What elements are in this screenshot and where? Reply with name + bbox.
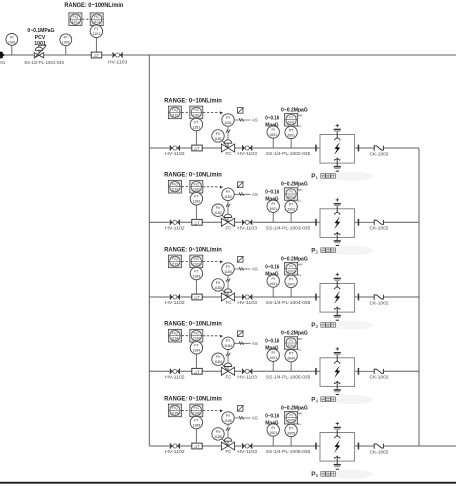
svg-text:PI: PI xyxy=(272,426,275,430)
svg-text:0~0.2MpaG: 0~0.2MpaG xyxy=(281,107,308,113)
svg-text:PI: PI xyxy=(64,36,67,40)
svg-text:SS-1/4-PL-1004-035: SS-1/4-PL-1004-035 xyxy=(266,300,311,306)
svg-text:HV-1102: HV-1102 xyxy=(165,449,185,455)
instrument FV 1184 unit 4 xyxy=(212,353,224,365)
wire FT to flow element unit 5 xyxy=(195,429,197,444)
label minus unit 5 xyxy=(336,468,339,470)
wire breaker to bus unit 5 xyxy=(383,445,456,447)
svg-text:FIQ: FIQ xyxy=(172,183,178,187)
svg-text:1183: 1183 xyxy=(171,262,178,266)
instrument FT 1181 unit 1 xyxy=(190,118,202,130)
instrument FV 1181 unit 1 xyxy=(212,130,224,142)
svg-text:CK-1002: CK-1002 xyxy=(370,226,389,232)
solenoid box unit 2 xyxy=(237,181,243,187)
arrowhead signal to FY unit 3 xyxy=(220,260,223,263)
svg-text:△T: △T xyxy=(194,295,200,300)
instrument PT 2003 unit 3 xyxy=(290,288,292,297)
wire process pipe unit 1 xyxy=(149,147,319,149)
instrument FY 1183 unit 3 xyxy=(222,263,234,275)
wire air supply with pneumatic slashes unit 5 xyxy=(234,417,250,419)
svg-text:2003: 2003 xyxy=(287,270,295,274)
svg-text:2002: 2002 xyxy=(287,208,295,212)
terminal tick right unit 5 xyxy=(358,443,360,450)
svg-text:2004: 2004 xyxy=(287,357,295,361)
svg-text:PI: PI xyxy=(290,414,293,418)
node off-page inlet connector xyxy=(0,52,5,59)
stack chamber box unit 1 xyxy=(320,135,355,164)
svg-text:1183: 1183 xyxy=(193,274,201,278)
instrument FIC 1184 unit 4 xyxy=(190,329,203,342)
wire FY to valve actuator pneumatic unit 5 xyxy=(227,424,229,437)
instrument PI 1001 unit 3 xyxy=(272,287,274,297)
lightning bolt unit 5 xyxy=(334,440,340,453)
breaker CK-1002 unit 4 xyxy=(374,369,383,374)
svg-text:1185: 1185 xyxy=(193,411,200,415)
svg-text:1002: 1002 xyxy=(62,41,70,45)
label P5 discharge chamber unit 5 xyxy=(311,471,318,478)
instrument PI 2001 alarm square unit 1 xyxy=(285,113,298,126)
instrument PT 2005 unit 5 xyxy=(290,437,292,446)
instrument FIC 1101 xyxy=(90,13,103,26)
instrument FV 1185 unit 5 xyxy=(212,428,224,440)
svg-text:CK-1002: CK-1002 xyxy=(370,375,389,381)
electrode bottom unit 1 xyxy=(334,158,340,167)
label CJK discharge chamber glyphs unit 3 xyxy=(321,323,336,328)
svg-text:PI: PI xyxy=(272,202,275,206)
solenoid box unit 1 xyxy=(237,107,243,113)
svg-text:FY: FY xyxy=(226,339,231,343)
svg-text:1001: 1001 xyxy=(269,133,277,137)
wire process pipe unit 2 xyxy=(149,221,319,223)
svg-text:0~0.2MpaG: 0~0.2MpaG xyxy=(281,331,308,337)
svg-text:FIC: FIC xyxy=(194,332,200,336)
terminal tick left unit 3 xyxy=(315,294,317,301)
svg-text:0~0.16: 0~0.16 xyxy=(265,339,279,345)
svg-text:HH: HH xyxy=(298,188,302,192)
svg-text:LL: LL xyxy=(298,273,302,277)
svg-text:FIQ: FIQ xyxy=(172,332,178,336)
svg-text:1184: 1184 xyxy=(224,344,232,348)
flow element FE (triangle-T) top xyxy=(91,52,101,58)
wire FT to flow element unit 1 xyxy=(195,131,197,146)
instrument FY 1181 unit 1 xyxy=(222,114,234,126)
wire air supply with pneumatic slashes unit 1 xyxy=(234,119,250,121)
wire FY to valve actuator pneumatic unit 3 xyxy=(227,275,229,288)
instrument PI 1001 unit 4 xyxy=(272,361,274,371)
terminal tick left unit 1 xyxy=(315,145,317,152)
instrument PI 1002 xyxy=(65,46,67,55)
svg-text:△T: △T xyxy=(194,146,200,151)
svg-text:0~0.2MpaG: 0~0.2MpaG xyxy=(281,182,308,188)
instrument FY 1185 unit 5 xyxy=(222,412,234,424)
label plus unit 2 xyxy=(336,198,339,201)
svg-text:FIQ: FIQ xyxy=(172,406,178,410)
svg-text:PI: PI xyxy=(272,128,275,132)
flow element FE unit 4 xyxy=(192,368,202,374)
stack chamber box unit 3 xyxy=(320,284,355,313)
stack chamber box unit 4 xyxy=(320,358,355,387)
svg-text:1182: 1182 xyxy=(224,195,232,199)
battery plates bottom unit 1 xyxy=(334,166,341,168)
label plus unit 3 xyxy=(336,273,339,276)
svg-text:HV-1102: HV-1102 xyxy=(165,226,185,232)
label CJK discharge chamber glyphs unit 5 xyxy=(321,472,336,477)
watermark blob unit 3 xyxy=(331,321,373,330)
wire breaker to bus unit 2 xyxy=(383,221,419,223)
svg-text:FIQ: FIQ xyxy=(172,257,178,261)
wire FT to flow element unit 4 xyxy=(195,354,197,369)
svg-text:1184: 1184 xyxy=(193,337,200,341)
instrument FY 1182 unit 2 xyxy=(222,188,234,200)
svg-text:AS: AS xyxy=(252,341,258,346)
instrument FT 1184 unit 4 xyxy=(190,342,202,354)
svg-text:1182: 1182 xyxy=(214,211,222,215)
svg-text:FIC: FIC xyxy=(94,15,100,19)
electrode top unit 1 xyxy=(334,132,340,141)
battery plates bottom unit 5 xyxy=(334,464,341,466)
svg-text:MpaG: MpaG xyxy=(265,420,278,426)
svg-text:1185: 1185 xyxy=(214,435,222,439)
wire FV to valve stem unit 1 xyxy=(221,139,228,148)
instrument PT 2001 unit 1 xyxy=(290,139,292,148)
svg-text:HV-1102: HV-1102 xyxy=(165,151,185,157)
valve HV-1103 unit 5 xyxy=(242,443,253,449)
label plus unit 5 xyxy=(336,422,339,425)
valve HV-1102 unit 2 xyxy=(169,219,180,225)
svg-text:MpaG: MpaG xyxy=(265,197,278,203)
flow element FE unit 3 xyxy=(192,294,202,300)
svg-text:FC: FC xyxy=(226,300,233,305)
svg-text:HV-1103: HV-1103 xyxy=(237,449,257,455)
electrode top unit 2 xyxy=(334,206,340,215)
terminal tick right unit 1 xyxy=(358,145,360,152)
wire signal FIQ-FIC-FY dashed unit 2 xyxy=(182,186,220,188)
instrument FT 1183 unit 3 xyxy=(190,267,202,279)
svg-text:SS-1/4-PL-1002-035: SS-1/4-PL-1002-035 xyxy=(266,151,311,157)
wire breaker to bus unit 3 xyxy=(383,296,419,298)
watermark blob unit 2 xyxy=(331,246,373,255)
wire air supply with pneumatic slashes unit 4 xyxy=(234,342,250,344)
svg-text:2005: 2005 xyxy=(287,419,295,423)
svg-text:2002: 2002 xyxy=(287,195,295,199)
svg-text:0~0.16: 0~0.16 xyxy=(265,264,279,270)
instrument FIQ 1183 unit 3 xyxy=(168,255,181,268)
instrument FIQ 1181 unit 1 xyxy=(168,106,181,119)
svg-text:SS-1/4-PL-1003-035: SS-1/4-PL-1003-035 xyxy=(266,226,311,232)
label minus unit 3 xyxy=(336,319,339,321)
breaker CK-1002 unit 5 xyxy=(374,443,383,448)
svg-text:FIC: FIC xyxy=(194,257,200,261)
valve HV-1103 unit 4 xyxy=(242,368,253,374)
instrument PT 2002 unit 2 xyxy=(290,213,292,222)
instrument FIQ 1182 unit 2 xyxy=(168,180,181,193)
electrode bottom unit 5 xyxy=(334,456,340,465)
battery plates bottom unit 3 xyxy=(334,315,341,317)
battery plates top unit 2 xyxy=(334,203,341,205)
svg-text:1001: 1001 xyxy=(8,40,16,44)
svg-text:1101: 1101 xyxy=(93,20,100,24)
wire branch header vertical xyxy=(148,55,150,446)
svg-text:FIC: FIC xyxy=(194,108,200,112)
svg-text:PI: PI xyxy=(272,277,275,281)
instrument PT 2004 unit 4 xyxy=(290,362,292,371)
svg-text:FV: FV xyxy=(216,430,221,434)
instrument PI 1001 unit 1 xyxy=(272,138,274,148)
svg-text:AS: AS xyxy=(252,192,258,197)
svg-text:1001: 1001 xyxy=(269,282,277,286)
instrument FV 1182 unit 2 xyxy=(212,204,224,216)
wire FT to flow element unit 3 xyxy=(195,280,197,295)
svg-text:PI: PI xyxy=(10,35,13,39)
svg-text:MpaG: MpaG xyxy=(265,271,278,277)
lightning bolt unit 2 xyxy=(334,216,340,229)
label plus unit 4 xyxy=(336,347,339,350)
svg-text:2003: 2003 xyxy=(287,282,295,286)
breaker CK-1002 unit 2 xyxy=(374,220,383,225)
label minus unit 4 xyxy=(336,394,339,396)
terminal tick left unit 4 xyxy=(315,368,317,375)
svg-text:1001: 1001 xyxy=(34,41,46,47)
svg-text:HV-1102: HV-1102 xyxy=(165,375,185,381)
svg-text:FV: FV xyxy=(216,132,221,136)
valve HV-1103 unit 3 xyxy=(242,294,253,300)
wire stack to breaker unit 4 xyxy=(355,370,374,372)
svg-text:FC: FC xyxy=(226,226,233,231)
electrode bottom unit 2 xyxy=(334,232,340,241)
svg-text:FY: FY xyxy=(226,190,231,194)
arrowhead signal to FY unit 4 xyxy=(220,335,223,338)
svg-text:FIC: FIC xyxy=(194,406,200,410)
svg-text:FV: FV xyxy=(216,281,221,285)
instrument FIC 1181 unit 1 xyxy=(190,106,203,119)
stack chamber box unit 5 xyxy=(320,433,355,462)
svg-text:△T: △T xyxy=(194,369,200,374)
svg-text:PI: PI xyxy=(290,190,293,194)
wire FY to valve actuator pneumatic unit 1 xyxy=(227,126,229,139)
wire FV to valve stem unit 4 xyxy=(221,362,228,371)
instrument FIC 1183 unit 3 xyxy=(190,255,203,268)
svg-text:1181: 1181 xyxy=(224,121,232,125)
wire FY to valve actuator pneumatic unit 2 xyxy=(227,201,229,214)
svg-text:0~0.16: 0~0.16 xyxy=(265,413,279,419)
electrode bottom unit 3 xyxy=(334,307,340,316)
wire signal FIQ-FIC dashed xyxy=(82,18,90,20)
control valve with diaphragm actuator unit 1 xyxy=(221,140,235,152)
terminal tick left unit 5 xyxy=(315,443,317,450)
label CJK discharge chamber glyphs unit 4 xyxy=(321,397,336,402)
instrument FT 1101 xyxy=(90,25,102,37)
lightning bolt unit 4 xyxy=(334,365,340,378)
svg-text:1184: 1184 xyxy=(214,360,222,364)
svg-text:1183: 1183 xyxy=(214,286,222,290)
arrowhead signal to FY unit 5 xyxy=(220,409,223,412)
svg-text:1101: 1101 xyxy=(93,32,101,36)
wire FV to valve stem unit 5 xyxy=(221,437,228,446)
label P3 discharge chamber unit 3 xyxy=(311,322,318,329)
wire stack to breaker unit 2 xyxy=(355,221,374,223)
svg-text:SS-1/4-PL-1005-035: SS-1/4-PL-1005-035 xyxy=(266,375,311,381)
instrument FIC 1185 unit 5 xyxy=(190,404,203,417)
svg-text:RANGE: 0~10NL/min: RANGE: 0~10NL/min xyxy=(164,97,222,104)
svg-text:1001: 1001 xyxy=(269,207,277,211)
watermark blob unit 4 xyxy=(331,395,373,404)
svg-text:1182: 1182 xyxy=(193,200,201,204)
instrument FIQ 1101 xyxy=(69,13,82,26)
battery plates top unit 1 xyxy=(334,129,341,131)
wire FV to valve stem unit 3 xyxy=(221,288,228,297)
instrument PI 1001 unit 5 xyxy=(272,436,274,446)
wire stack to breaker unit 5 xyxy=(355,445,374,447)
svg-text:FY: FY xyxy=(226,414,231,418)
svg-text:FIQ: FIQ xyxy=(73,15,79,19)
svg-text:CK-1002: CK-1002 xyxy=(370,449,389,455)
valve PCV 1001 (self-regulating control valve) xyxy=(34,45,46,58)
instrument PI 2004 alarm square unit 4 xyxy=(285,337,298,350)
instrument PI 2002 alarm square unit 2 xyxy=(285,188,298,201)
svg-text:1183: 1183 xyxy=(193,262,200,266)
instrument FV 1183 unit 3 xyxy=(212,279,224,291)
flow element FE unit 2 xyxy=(192,219,202,225)
instrument FIQ 1184 unit 4 xyxy=(168,329,181,342)
valve HV-1103 unit 1 xyxy=(242,145,253,151)
valve HV-1102 unit 1 xyxy=(169,145,180,151)
terminal tick left unit 2 xyxy=(315,219,317,226)
arrowhead signal to FY unit 2 xyxy=(220,186,223,189)
wire stack to breaker unit 3 xyxy=(355,296,374,298)
svg-text:1185: 1185 xyxy=(193,423,201,427)
svg-text:FV: FV xyxy=(216,206,221,210)
svg-text:HV-1103: HV-1103 xyxy=(108,59,128,65)
wire FT to flow element unit 2 xyxy=(195,205,197,220)
arrowhead signal to FY unit 1 xyxy=(220,111,223,114)
breaker CK-1002 unit 1 xyxy=(374,145,383,150)
electrode top unit 4 xyxy=(334,355,340,364)
svg-text:RANGE: 0~10NL/min: RANGE: 0~10NL/min xyxy=(164,172,222,179)
control valve with diaphragm actuator unit 2 xyxy=(221,214,235,226)
svg-text:01: 01 xyxy=(0,60,5,65)
valve HV-1103 top xyxy=(112,52,123,58)
valve HV-1102 unit 5 xyxy=(169,443,180,449)
svg-text:RANGE: 0~10NL/min: RANGE: 0~10NL/min xyxy=(164,246,222,253)
svg-text:2005: 2005 xyxy=(287,431,295,435)
svg-text:△T: △T xyxy=(94,53,100,58)
svg-text:HH: HH xyxy=(298,412,302,416)
svg-text:PI: PI xyxy=(272,351,275,355)
svg-text:HV-1103: HV-1103 xyxy=(237,300,257,306)
svg-text:AS: AS xyxy=(252,416,258,421)
svg-text:1101: 1101 xyxy=(72,20,79,24)
svg-text:HV-1103: HV-1103 xyxy=(237,151,257,157)
control valve with diaphragm actuator unit 4 xyxy=(221,363,235,375)
svg-text:FV: FV xyxy=(216,355,221,359)
valve HV-1102 unit 3 xyxy=(169,294,180,300)
terminal tick right unit 4 xyxy=(358,368,360,375)
svg-text:1181: 1181 xyxy=(171,113,178,117)
svg-text:RANGE: 0~10NL/min: RANGE: 0~10NL/min xyxy=(164,395,222,402)
wire stack to breaker unit 1 xyxy=(355,147,374,149)
wire FT to flow element xyxy=(95,38,97,53)
wire FY to valve actuator pneumatic unit 4 xyxy=(227,350,229,363)
svg-text:HH: HH xyxy=(298,263,302,267)
flow element FE unit 1 xyxy=(192,145,202,151)
instrument FIC 1182 unit 2 xyxy=(190,180,203,193)
stack chamber box unit 2 xyxy=(320,209,355,238)
instrument PI 1001 xyxy=(11,45,13,55)
svg-text:0~0.2MpaG: 0~0.2MpaG xyxy=(281,256,308,262)
control valve with diaphragm actuator unit 3 xyxy=(221,289,235,301)
svg-text:1181: 1181 xyxy=(214,137,222,141)
wire FV to valve stem unit 2 xyxy=(221,213,228,222)
label minus unit 1 xyxy=(336,170,339,172)
svg-text:LL: LL xyxy=(298,347,302,351)
svg-text:0~0.1MPaG: 0~0.1MPaG xyxy=(27,28,54,34)
svg-text:1184: 1184 xyxy=(193,349,201,353)
svg-text:AS: AS xyxy=(252,118,258,123)
svg-text:△T: △T xyxy=(194,444,200,449)
watermark blob unit 5 xyxy=(331,470,373,479)
wire air supply with pneumatic slashes unit 2 xyxy=(234,193,250,195)
svg-text:FY: FY xyxy=(226,116,231,120)
wire return bus vertical right xyxy=(418,148,420,446)
svg-text:1185: 1185 xyxy=(224,419,232,423)
svg-text:CK-1002: CK-1002 xyxy=(370,151,389,157)
control valve with diaphragm actuator unit 5 xyxy=(221,438,235,450)
svg-text:HH: HH xyxy=(298,337,302,341)
wire main supply header pipe xyxy=(0,54,456,56)
svg-text:HV-1102: HV-1102 xyxy=(165,300,185,306)
svg-text:CK-1002: CK-1002 xyxy=(370,300,389,306)
flow element FE unit 5 xyxy=(192,443,202,449)
solenoid box unit 5 xyxy=(237,405,243,411)
svg-text:1183: 1183 xyxy=(224,270,232,274)
svg-text:RANGE: 0~10NL/min: RANGE: 0~10NL/min xyxy=(164,321,222,328)
svg-text:2004: 2004 xyxy=(287,344,295,348)
label CJK discharge chamber glyphs unit 1 xyxy=(321,174,336,179)
svg-text:AS: AS xyxy=(252,267,258,272)
battery plates bottom unit 4 xyxy=(334,389,341,391)
svg-text:SS-1/2-PL-1001-040: SS-1/2-PL-1001-040 xyxy=(24,60,64,65)
lightning bolt unit 1 xyxy=(334,142,340,155)
svg-text:LL: LL xyxy=(298,422,302,426)
svg-text:RANGE: 0~100NL/min: RANGE: 0~100NL/min xyxy=(64,2,123,9)
svg-text:HV-1103: HV-1103 xyxy=(237,226,257,232)
svg-text:1182: 1182 xyxy=(171,188,178,192)
svg-text:MpaG: MpaG xyxy=(265,122,278,128)
label plus unit 1 xyxy=(336,124,339,127)
svg-text:0~0.2MpaG: 0~0.2MpaG xyxy=(281,405,308,411)
valve HV-1102 unit 4 xyxy=(169,368,180,374)
terminal tick right unit 2 xyxy=(358,219,360,226)
wire signal FIQ-FIC-FY dashed unit 5 xyxy=(182,409,220,411)
svg-text:FC: FC xyxy=(226,449,233,454)
battery plates top unit 3 xyxy=(334,278,341,280)
battery plates top unit 5 xyxy=(334,427,341,429)
svg-text:1181: 1181 xyxy=(193,113,200,117)
svg-text:1001: 1001 xyxy=(269,431,277,435)
svg-text:1182: 1182 xyxy=(193,188,200,192)
svg-text:FC: FC xyxy=(226,151,233,156)
svg-text:LL: LL xyxy=(298,124,302,128)
instrument FY 1184 unit 4 xyxy=(222,337,234,349)
instrument PI 1001 unit 2 xyxy=(272,212,274,222)
battery plates bottom unit 2 xyxy=(334,240,341,242)
svg-text:SS-1/4-PL-1006-035: SS-1/4-PL-1006-035 xyxy=(266,449,311,455)
instrument PI 2005 alarm square unit 5 xyxy=(285,411,298,424)
instrument FIQ 1185 unit 5 xyxy=(168,404,181,417)
svg-text:MpaG: MpaG xyxy=(265,346,278,352)
wire signal FIQ-FIC-FY dashed unit 3 xyxy=(182,260,220,262)
instrument FT 1182 unit 2 xyxy=(190,193,202,205)
